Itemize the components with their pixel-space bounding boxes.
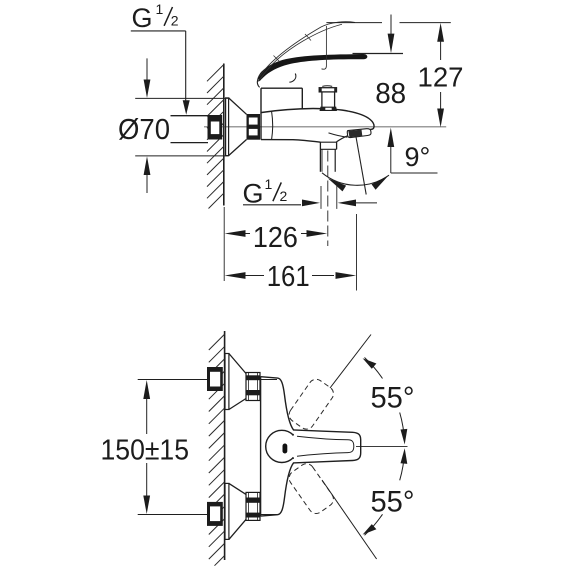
- G1/2 lower dim arrows: [243, 204, 301, 206]
- upper union: ring nut: [246, 373, 260, 401]
- escutcheon cone: [226, 98, 229, 156]
- lever hub rear edge: [257, 72, 262, 88]
- top reference line (127): [326, 22, 382, 24]
- svg-text:2: 2: [280, 188, 288, 204]
- S-union ring nut: [247, 114, 261, 140]
- wall: [223, 64, 225, 206]
- body bottom sweep: [261, 463, 294, 516]
- phantom handle -55 (dashed): [286, 461, 336, 517]
- outlet pipe centerline extension (dashed): [327, 151, 329, 247]
- shower outlet pipe: [319, 142, 321, 172]
- dia70 top arrow: [146, 58, 148, 80]
- G 1/2 lower: pipe edge extensions: [320, 186, 322, 209]
- wall extension line down: [223, 207, 225, 281]
- svg-text:Ø70: Ø70: [118, 114, 170, 146]
- 126 dimension: [225, 230, 246, 237]
- 88 top tick (lever top): [353, 53, 404, 55]
- 150+-15 dimension: [143, 380, 150, 514]
- 55deg arcs upper: [365, 358, 383, 379]
- lever handle (closed): [258, 54, 367, 81]
- G 1/2 top label leader: [131, 30, 186, 32]
- upper union: escutcheon cone: [225, 354, 229, 410]
- svg-text:1: 1: [265, 176, 273, 192]
- lower union: hex nut at wall: [207, 502, 223, 526]
- aerator: [347, 129, 371, 138]
- svg-text:55°: 55°: [371, 486, 415, 519]
- body bottom: [261, 140, 320, 143]
- lever hub front lower edge: [289, 74, 295, 83]
- svg-text:2: 2: [171, 13, 179, 29]
- 9deg arc: [322, 173, 389, 185]
- svg-text:G: G: [243, 178, 264, 208]
- svg-text:150±15: 150±15: [101, 434, 190, 466]
- dia70 bottom arrow: [146, 175, 148, 193]
- svg-text:161: 161: [267, 261, 310, 293]
- body top contour: [262, 109, 349, 113]
- lower union: escutcheon cone: [225, 483, 229, 539]
- tongue inner contour: [297, 436, 354, 456]
- body end-cap seam: [271, 112, 274, 140]
- 161 dimension: [225, 272, 246, 279]
- svg-text:127: 127: [418, 62, 464, 93]
- dia 70 extension lines: [135, 97, 228, 99]
- 9deg leader horizontal: [391, 172, 438, 174]
- junction notches: [292, 434, 294, 436]
- cartridge cap: [261, 87, 302, 89]
- svg-text:55°: 55°: [371, 382, 415, 415]
- 127 dimension: [437, 23, 444, 42]
- phantom raised lever: [258, 22, 355, 82]
- 150 ref line lower: [138, 514, 223, 516]
- handle dot: [283, 444, 288, 454]
- svg-text:88: 88: [375, 78, 406, 110]
- wall hatching: [207, 65, 224, 209]
- handle tongue: [293, 430, 361, 463]
- svg-text:1: 1: [156, 1, 164, 17]
- centerline (pipe axis): [204, 126, 446, 128]
- 55deg slant line upper: [330, 335, 371, 389]
- lower union: ring nut: [246, 492, 260, 520]
- hex nut at wall (side view): [208, 115, 223, 140]
- diverter knob: [322, 85, 332, 88]
- svg-text:G: G: [132, 3, 153, 33]
- 55deg arcs lower: [365, 514, 383, 535]
- phantom handle +55 (dashed): [286, 376, 336, 432]
- 9deg slant line: [356, 137, 366, 195]
- body plate (bottom view): [260, 377, 262, 516]
- svg-text:9°: 9°: [405, 142, 431, 172]
- 161 extension line (spout tip): [356, 214, 358, 291]
- 55deg slant line lower: [322, 480, 377, 559]
- center line of handle (horizontal): [356, 445, 408, 447]
- supply pipe stub: [171, 115, 209, 117]
- spout underside: [337, 136, 348, 142]
- upper union: hex nut at wall: [207, 367, 223, 391]
- spout chin crease: [329, 133, 348, 137]
- body top sweep: [261, 377, 294, 430]
- wall hatching (bottom view): [209, 335, 225, 566]
- svg-text:126: 126: [253, 222, 298, 254]
- phantom lever front face: [322, 26, 327, 69]
- handle hub circle: [266, 430, 298, 462]
- faucet body: [260, 88, 262, 139]
- 88 bottom arrow / 9deg leader vertical: [390, 147, 392, 174]
- spout nose: [349, 111, 375, 129]
- 150 ref line upper: [138, 379, 223, 381]
- 88 top arrow: [390, 15, 392, 35]
- wall (bottom view): [224, 331, 226, 560]
